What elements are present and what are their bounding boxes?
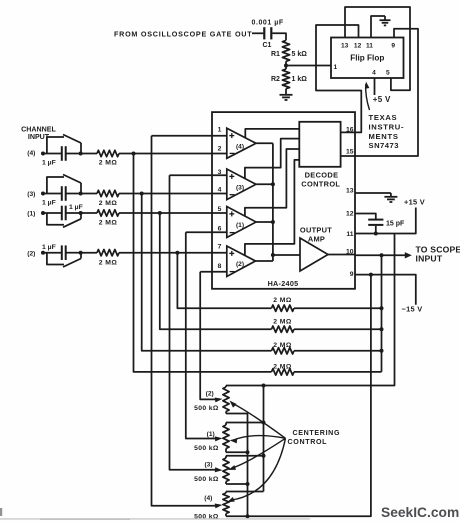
label HA-2405 bbox=[268, 279, 299, 288]
pin 4 label bbox=[372, 70, 376, 77]
wire decode to op-amp 3 bbox=[245, 139, 299, 179]
label FROM OSCILLOSCOPE GATE OUT bbox=[114, 30, 252, 39]
node pot3 top rail bbox=[262, 454, 266, 458]
resistor 2M feedback row2 bbox=[272, 318, 382, 332]
label DECODE CONTROL bbox=[301, 171, 340, 189]
svg-text:MENTS: MENTS bbox=[369, 132, 399, 141]
wire tap amp1 to 2M row2 bbox=[160, 213, 272, 329]
svg-text:9: 9 bbox=[391, 42, 395, 49]
svg-text:R2: R2 bbox=[271, 76, 280, 83]
wire output amp to pin 10 bbox=[328, 254, 355, 256]
wiper arrow pot 2 bbox=[215, 397, 223, 402]
resistor 2M feedback row4 bbox=[272, 363, 382, 375]
svg-text:15: 15 bbox=[346, 149, 354, 156]
svg-text:9: 9 bbox=[350, 271, 354, 278]
wire OUT to C1 bbox=[252, 32, 263, 34]
wire tap amp2 to 2M row1 bbox=[177, 253, 271, 309]
label OUTPUT AMP bbox=[300, 225, 332, 243]
label TO SCOPE INPUT bbox=[416, 245, 460, 264]
svg-text:INSTRU-: INSTRU- bbox=[369, 122, 405, 131]
svg-text:(3): (3) bbox=[204, 462, 212, 469]
svg-text:(2): (2) bbox=[206, 391, 214, 398]
wire junction to flip flop pin 1 bbox=[286, 65, 331, 67]
svg-text:13: 13 bbox=[346, 187, 354, 194]
arrow to scope input bbox=[405, 252, 412, 258]
svg-text:1: 1 bbox=[218, 127, 222, 134]
op-amp (1) bbox=[227, 207, 256, 238]
node row1 on V2 bbox=[380, 306, 384, 310]
wire input 4 to pin 2 bbox=[119, 153, 227, 155]
resistor 2M feedback row1 bbox=[272, 297, 382, 311]
svg-text:12: 12 bbox=[354, 42, 362, 49]
pin 11 label bbox=[366, 42, 373, 49]
op-amp (4) bbox=[227, 128, 256, 158]
label Flip Flop bbox=[350, 54, 384, 63]
wire pot3 bottom bbox=[226, 483, 248, 485]
wire pot1 top bbox=[226, 422, 264, 424]
capacitor C1 bbox=[252, 20, 284, 49]
op-amp (2) bbox=[227, 246, 256, 277]
svg-text:(3): (3) bbox=[27, 191, 35, 198]
wire pin 8 down to pot 2 wiper bbox=[200, 272, 218, 400]
wiper arrow pot 1 bbox=[215, 436, 223, 441]
node pot1 bottom chain bbox=[246, 450, 250, 454]
pin 12 label bbox=[354, 42, 362, 49]
svg-text:11: 11 bbox=[346, 231, 353, 238]
svg-text:13: 13 bbox=[341, 42, 349, 49]
svg-text:(4): (4) bbox=[27, 150, 35, 157]
svg-text:2: 2 bbox=[218, 145, 222, 152]
ground below R2 bbox=[280, 95, 293, 100]
wire pin 1 down to pot 4 wiper bbox=[152, 136, 219, 506]
wire R2 to ground bbox=[285, 89, 287, 95]
svg-text:2 MΩ: 2 MΩ bbox=[273, 297, 292, 304]
pin 1 label bbox=[334, 64, 338, 71]
svg-text:12: 12 bbox=[346, 210, 354, 217]
svg-text:FROM OSCILLOSCOPE GATE OUT: FROM OSCILLOSCOPE GATE OUT bbox=[114, 30, 252, 39]
node V2 on pin 10 bbox=[380, 253, 384, 257]
svg-text:1: 1 bbox=[334, 64, 338, 71]
node cap on pin 11 bbox=[374, 232, 378, 236]
wire rail R2 pot tops bbox=[263, 386, 265, 492]
output amp triangle bbox=[300, 238, 328, 271]
node feedback tap amp1 bbox=[158, 211, 162, 215]
svg-text:2 MΩ: 2 MΩ bbox=[99, 259, 118, 266]
wire pin 1 left bbox=[152, 135, 227, 137]
wire pin 11 to +15V bbox=[355, 208, 416, 234]
wire V1 -15 rail to pot bottoms bbox=[226, 275, 371, 517]
capacitor 15 pF bbox=[368, 220, 405, 228]
svg-text:2 MΩ: 2 MΩ bbox=[99, 160, 118, 167]
wire decode to op-amp 4 bbox=[245, 129, 299, 138]
ground at pin 13 bbox=[384, 197, 397, 202]
svg-text:2 MΩ: 2 MΩ bbox=[273, 363, 292, 370]
svg-text:1 µF: 1 µF bbox=[42, 244, 56, 251]
node R1-R2 junction bbox=[284, 64, 288, 68]
svg-text:CONTROL: CONTROL bbox=[301, 180, 340, 189]
svg-text:(3): (3) bbox=[236, 184, 244, 191]
op-amp (3) bbox=[227, 169, 256, 200]
wiper arrow pot 4 bbox=[215, 503, 223, 508]
svg-text:5: 5 bbox=[386, 70, 390, 77]
wire input 2 to pin 7 bbox=[119, 252, 227, 254]
svg-text:500 kΩ: 500 kΩ bbox=[194, 405, 219, 412]
svg-text:OUTPUT: OUTPUT bbox=[300, 225, 332, 234]
pin 9 label bbox=[391, 42, 395, 49]
svg-text:16: 16 bbox=[346, 126, 354, 133]
callout curve to pot 1 wiper bbox=[230, 436, 286, 444]
wire op-amp 1 output bbox=[256, 221, 273, 223]
svg-text:SN7473: SN7473 bbox=[369, 141, 399, 150]
wire pin 12 to capacitor bbox=[355, 214, 376, 220]
wire op-amp 4 output bbox=[256, 142, 273, 144]
wire op-amp 3 output bbox=[256, 183, 273, 185]
node V1 on pin 9 bbox=[369, 273, 373, 277]
wire mux pin 13 to ground bbox=[355, 193, 391, 197]
node bus amp1 bbox=[271, 220, 275, 224]
wire decode to op-amp 1 bbox=[245, 149, 299, 216]
potentiometer 2 500k bbox=[194, 386, 229, 414]
node feedback tap amp3 bbox=[140, 192, 144, 196]
svg-text:(4): (4) bbox=[236, 144, 244, 151]
node feedback tap amp4 bbox=[132, 152, 136, 156]
svg-text:2 MΩ: 2 MΩ bbox=[99, 200, 118, 207]
svg-text:5: 5 bbox=[218, 206, 222, 213]
svg-text:1 µF: 1 µF bbox=[42, 160, 56, 167]
label CHANNEL INPUT bbox=[21, 126, 56, 142]
channel input 3 with capacitor and 2M resistor bbox=[27, 175, 119, 208]
wire V2 output feedback rail bbox=[381, 255, 383, 372]
svg-text:(4): (4) bbox=[204, 495, 212, 502]
wire pin 6 down to pot 1 wiper bbox=[186, 232, 218, 438]
node bus to output amp bbox=[271, 253, 275, 257]
callout curve to pot 4 wiper bbox=[227, 438, 286, 502]
wire tap amp3 to 2M row3 bbox=[142, 194, 272, 351]
label CENTERING CONTROL bbox=[288, 429, 341, 446]
pin labels 16-9 right side bbox=[346, 126, 354, 278]
svg-text:+5 V: +5 V bbox=[373, 95, 391, 104]
wire C1 to R1 bbox=[272, 33, 286, 40]
resistor R2 1k bbox=[271, 69, 307, 89]
HA-2405 multiplexer U1 box bbox=[212, 112, 355, 289]
svg-text:1 µF: 1 µF bbox=[42, 199, 56, 206]
label TEXAS INSTRUMENTS SN7473 bbox=[369, 113, 405, 150]
callout arrow to pin 4 bbox=[365, 82, 370, 111]
svg-text:INPUT: INPUT bbox=[416, 253, 443, 263]
svg-text:0.001 µF: 0.001 µF bbox=[252, 20, 284, 27]
svg-text:−15 V: −15 V bbox=[402, 305, 423, 314]
node feedback tap amp2 bbox=[175, 251, 179, 255]
svg-text:500 kΩ: 500 kΩ bbox=[194, 445, 219, 452]
svg-text:(2): (2) bbox=[236, 261, 244, 268]
callout curve to pot 2 wiper bbox=[230, 401, 286, 439]
wire R1 to junction bbox=[285, 61, 287, 69]
node R2 rail top bbox=[262, 384, 266, 388]
wiper arrow pot 3 bbox=[215, 467, 223, 472]
wire pin 9 to -15V bbox=[355, 275, 416, 305]
wire pin 6 left bbox=[186, 231, 227, 233]
channel input 1 with capacitor and 2M resistor bbox=[27, 204, 119, 227]
svg-text:4: 4 bbox=[218, 186, 222, 193]
svg-text:CONTROL: CONTROL bbox=[288, 438, 328, 446]
svg-text:TEXAS: TEXAS bbox=[369, 113, 398, 122]
svg-text:DECODE: DECODE bbox=[305, 171, 339, 180]
svg-text:2 MΩ: 2 MΩ bbox=[99, 220, 118, 227]
svg-text:11: 11 bbox=[366, 42, 373, 49]
label +15 V bbox=[404, 197, 425, 206]
wire flip flop pin 9 to mux pin 15 bbox=[341, 29, 418, 156]
wire flip flop pin 4 +5V bbox=[374, 78, 376, 95]
watermark SeekIC.com bbox=[381, 505, 459, 520]
channel input 4 with capacitor and 2M resistor bbox=[27, 135, 119, 167]
potentiometer 1 500k bbox=[194, 423, 229, 453]
potentiometer 4 500k bbox=[194, 492, 229, 521]
node bus amp3 bbox=[271, 182, 275, 186]
wire pot3 top bbox=[226, 455, 264, 457]
wire decode to op-amp 2 bbox=[245, 160, 299, 256]
wire pot2 bottom chain bbox=[226, 414, 248, 517]
wire input 1 to pin 5 bbox=[119, 212, 227, 214]
wire flip flop pin 13 loop to pin 5 bbox=[345, 7, 410, 90]
wire pot1 bottom bbox=[226, 451, 248, 453]
svg-text:CENTERING: CENTERING bbox=[293, 429, 341, 437]
svg-text:7: 7 bbox=[218, 244, 222, 251]
decode control box bbox=[299, 122, 340, 167]
label -15 V bbox=[402, 305, 423, 314]
wire pin 3 down to pot 3 wiper bbox=[170, 175, 219, 470]
wire output bus vertical bbox=[272, 143, 274, 261]
svg-text:+15 V: +15 V bbox=[404, 197, 425, 206]
resistor 2M feedback row3 bbox=[272, 342, 382, 354]
svg-text:1 kΩ: 1 kΩ bbox=[292, 76, 308, 83]
svg-text:2 MΩ: 2 MΩ bbox=[273, 342, 292, 349]
svg-text:C1: C1 bbox=[263, 42, 272, 49]
wire pin 8 left bbox=[200, 271, 227, 273]
node row3 on V2 bbox=[380, 349, 384, 353]
svg-text:(1): (1) bbox=[236, 222, 244, 229]
pin 13 label bbox=[341, 42, 349, 49]
svg-text:500 kΩ: 500 kΩ bbox=[194, 476, 219, 483]
svg-text:SeekIC.com: SeekIC.com bbox=[381, 505, 459, 520]
channel input 2 with capacitor and 2M resistor bbox=[27, 244, 119, 267]
wire flip flop pin 12 to mux pin 16 bbox=[316, 25, 361, 132]
svg-text:6: 6 bbox=[218, 225, 222, 232]
potentiometer 3 500k bbox=[194, 456, 229, 484]
flip flop U2 box bbox=[331, 38, 404, 79]
node pot3 bottom chain bbox=[246, 482, 250, 486]
svg-text:(2): (2) bbox=[27, 251, 35, 258]
wire flip flop pin 11 to ground bbox=[371, 16, 385, 38]
svg-text:4: 4 bbox=[372, 70, 376, 77]
svg-text:(1): (1) bbox=[207, 431, 215, 438]
svg-text:2 MΩ: 2 MΩ bbox=[273, 318, 292, 325]
wire pot4 top bbox=[226, 491, 264, 493]
resistor R1 5k bbox=[271, 40, 307, 61]
node chain on -15 rail bbox=[246, 514, 250, 518]
svg-text:R1: R1 bbox=[271, 51, 280, 58]
svg-text:AMP: AMP bbox=[308, 235, 325, 244]
node pot1 top rail bbox=[262, 421, 266, 425]
callout curve to pot 3 wiper bbox=[228, 438, 285, 470]
svg-text:8: 8 bbox=[218, 263, 222, 270]
wire bus to output amp bbox=[273, 254, 300, 256]
svg-text:HA-2405: HA-2405 bbox=[268, 279, 299, 288]
wire tap amp4 to 2M row4 bbox=[134, 154, 272, 372]
wire capacitor to pin 11 wire bbox=[375, 226, 377, 234]
wire input 3 to pin 4 bbox=[119, 193, 227, 195]
svg-text:15 pF: 15 pF bbox=[386, 220, 405, 227]
svg-text:5 kΩ: 5 kΩ bbox=[292, 51, 308, 58]
pin labels 1-8 left side bbox=[218, 127, 222, 270]
node row2 on V2 bbox=[380, 327, 384, 331]
svg-text:Flip Flop: Flip Flop bbox=[350, 54, 384, 63]
wire op-amp 2 output bbox=[256, 260, 273, 262]
pin 5 label bbox=[386, 70, 390, 77]
svg-text:(1): (1) bbox=[27, 211, 35, 218]
label +5 V bbox=[373, 95, 391, 104]
svg-text:1 µF: 1 µF bbox=[69, 204, 83, 211]
wire pin 3 left bbox=[170, 174, 227, 176]
wire pin 10 to scope bbox=[355, 254, 406, 256]
wire V3 +15 rail to pot tops bbox=[226, 234, 395, 386]
ground above flip flop bbox=[380, 16, 391, 25]
scan smudge bottom bbox=[0, 508, 310, 520]
